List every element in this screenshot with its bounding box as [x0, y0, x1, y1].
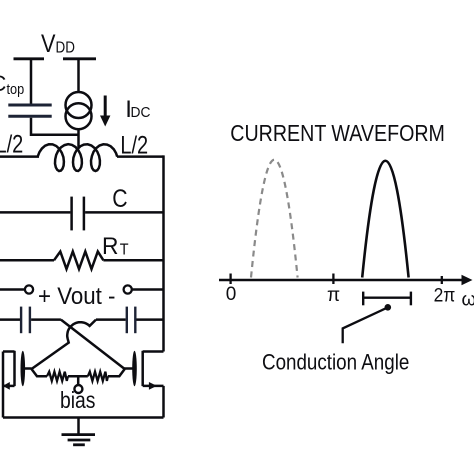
- title CURRENT WAVEFORM: [230, 121, 445, 147]
- svg-text:L/2: L/2: [120, 131, 148, 159]
- svg-text:T: T: [120, 241, 129, 259]
- svg-text:DD: DD: [56, 40, 75, 57]
- svg-text:+ Vout -: + Vout -: [38, 282, 115, 309]
- wire VDD to Ctop: [30, 59, 33, 104]
- svg-text:L/2: L/2: [0, 130, 23, 158]
- wire right rail upper: [162, 155, 165, 351]
- leader dot: [385, 304, 392, 311]
- wire bottom rail: [3, 416, 164, 419]
- waveform axis: [219, 279, 464, 282]
- tick 0: [229, 274, 231, 285]
- dashed current pulse: [251, 160, 298, 278]
- wire left cap to cross node: [31, 318, 61, 321]
- wire left rail lower: [2, 352, 5, 418]
- node VDD label: [41, 30, 75, 58]
- wire cross line to right gate: [61, 320, 125, 369]
- capacitor right coupling: [127, 307, 136, 334]
- svg-text:2π: 2π: [434, 284, 456, 306]
- transistor M1 channel: [13, 351, 16, 386]
- svg-text:V: V: [41, 30, 56, 58]
- resistor RT: [54, 252, 103, 270]
- wire VDD to current source: [77, 59, 80, 93]
- wire Vout row left: [0, 288, 25, 291]
- wire Vout row right: [132, 288, 164, 291]
- wire bias stem: [77, 376, 80, 385]
- wire current source to inductor center tap: [77, 129, 80, 147]
- svg-text:0: 0: [226, 284, 237, 305]
- wire left lead of inductor: [0, 155, 39, 158]
- transistor M2 channel: [141, 351, 144, 386]
- capacitor C: [72, 197, 84, 231]
- inductor L/2 L/2 coil: [38, 144, 118, 171]
- capacitor Ctop: [8, 105, 51, 116]
- label + Vout -: [38, 282, 115, 309]
- transistor M2 gate bar: [132, 351, 137, 386]
- terminal Vout+: [25, 285, 33, 293]
- transistor M2 drain wire: [143, 350, 164, 353]
- terminal Vout-: [124, 285, 132, 293]
- conduction angle bracket: [363, 292, 411, 306]
- transistor M2 source arrow: [149, 382, 157, 390]
- label L/2 left: [0, 130, 23, 158]
- wire right rail lower: [162, 386, 165, 418]
- tick 2pi: [441, 276, 443, 284]
- transistor M1 drain wire: [3, 350, 15, 353]
- svg-text:π: π: [327, 285, 340, 306]
- svg-text:Conduction Angle: Conduction Angle: [262, 350, 409, 375]
- svg-text:bias: bias: [60, 389, 95, 414]
- wire right coupling cap left lead: [96, 318, 126, 321]
- label 0: [226, 284, 237, 305]
- wire C row left: [0, 211, 70, 214]
- label RT: [102, 232, 129, 259]
- wire RT row left: [0, 259, 54, 262]
- terminal bias: [74, 385, 82, 393]
- ground stem: [77, 418, 80, 435]
- wire left gate to bias resistor: [32, 369, 48, 376]
- capacitor Ctop label: [0, 71, 25, 97]
- current source IDC: [66, 92, 92, 129]
- svg-text:ωt: ωt: [462, 290, 474, 311]
- label Conduction Angle: [262, 350, 409, 375]
- transistor M1 gate wire: [25, 367, 32, 370]
- label 2pi: [434, 284, 456, 306]
- wire right cap to right rail: [137, 318, 164, 321]
- VDD supply bar right: [63, 57, 96, 60]
- wire Ctop bottom to current source node: [31, 118, 79, 135]
- leader line: [343, 308, 387, 343]
- ground: [62, 435, 96, 445]
- tick pi: [332, 274, 334, 285]
- label C: [112, 184, 127, 212]
- wire RT row right: [103, 259, 163, 262]
- arrow IDC direction: [100, 96, 110, 127]
- capacitor left coupling: [21, 307, 30, 334]
- resistor bias left: [47, 372, 68, 381]
- label IDC: [125, 96, 150, 123]
- svg-text:C: C: [0, 71, 7, 96]
- solid current pulse: [362, 161, 408, 278]
- svg-text:DC: DC: [131, 105, 151, 122]
- label pi: [327, 285, 340, 306]
- transistor M1 source wire: [3, 385, 15, 388]
- wire C row right: [85, 211, 163, 214]
- wire cross line with hop to left gate: [32, 320, 97, 369]
- VDD supply bar left: [14, 57, 45, 60]
- wire bias center: [68, 375, 88, 378]
- axis arrowhead: [462, 275, 473, 286]
- label omega t: [462, 290, 474, 311]
- label L/2 right: [120, 131, 148, 159]
- label bias: [60, 389, 95, 414]
- transistor M1 gate bar: [21, 351, 26, 386]
- wire left coupling cap left: [0, 318, 20, 321]
- svg-text:C: C: [112, 184, 127, 212]
- resistor bias right: [88, 372, 108, 381]
- wire right lead of inductor: [117, 155, 164, 158]
- transistor M1 source arrow: [3, 382, 10, 390]
- wire bias right to right gate: [108, 369, 125, 376]
- svg-text:CURRENT WAVEFORM: CURRENT WAVEFORM: [230, 121, 445, 147]
- transistor M2 source wire: [143, 385, 164, 388]
- svg-text:R: R: [102, 232, 118, 259]
- svg-text:top: top: [7, 81, 25, 97]
- transistor M2 gate wire: [124, 367, 133, 370]
